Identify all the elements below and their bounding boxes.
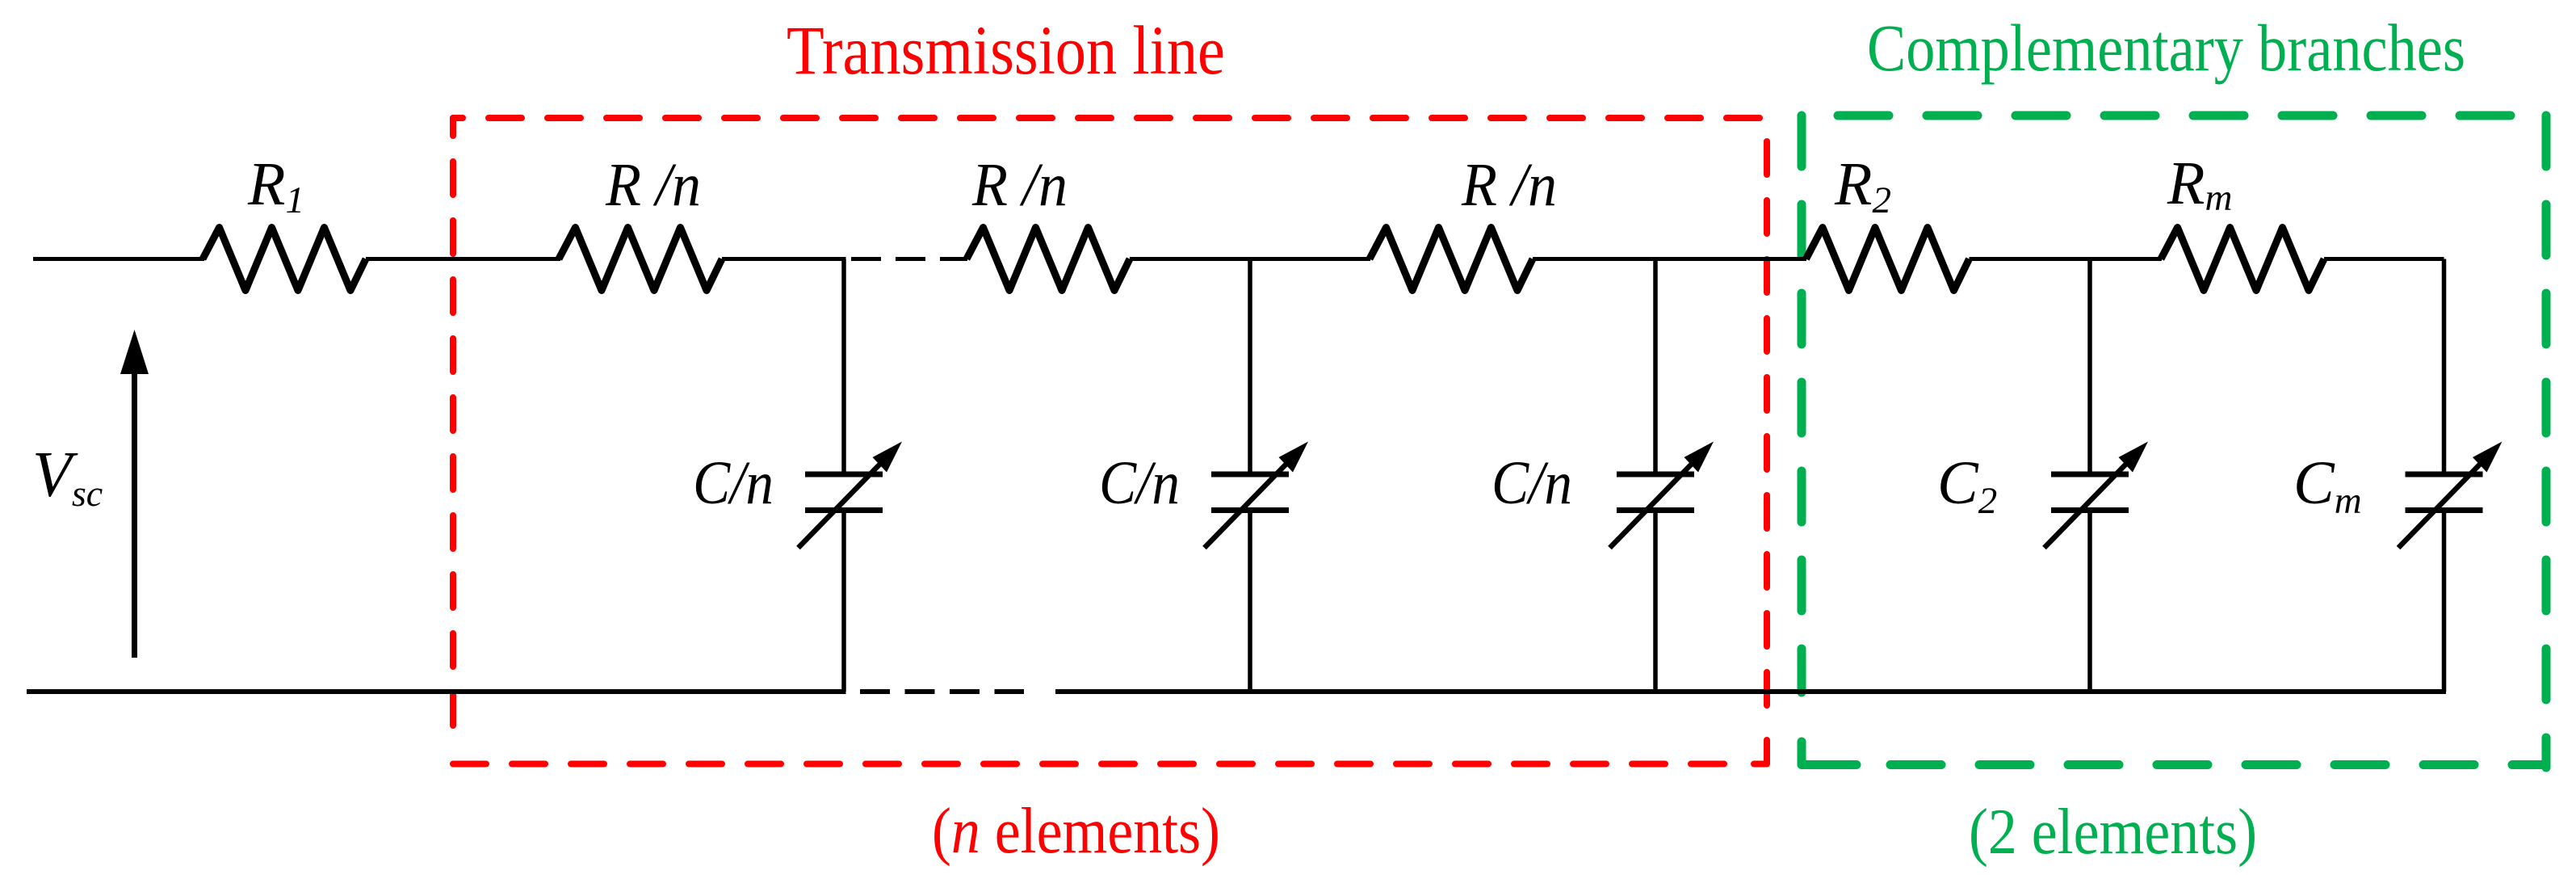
svg-text:R /n: R /n <box>1461 151 1557 219</box>
wire: top left lead <box>33 257 204 261</box>
svg-text:C/n: C/n <box>693 449 774 517</box>
wire: R/n 2 to R/n 3 (node 2) <box>1130 257 1370 261</box>
svg-text:R /n: R /n <box>605 151 701 219</box>
dashed box: Transmission line (red) <box>453 118 1767 764</box>
wire: Rm to top-right corner <box>2324 257 2444 261</box>
capacitor Cm <box>2398 259 2503 692</box>
svg-text:C/n: C/n <box>1099 449 1180 517</box>
wire: dashed continuation (bottom) <box>860 689 1024 694</box>
resistor R2 <box>1806 228 1970 291</box>
svg-text:(n elements): (n elements) <box>932 794 1220 867</box>
resistor R/n (1st) <box>559 228 722 291</box>
wire: bottom rail (left solid part) <box>27 689 846 694</box>
dashed box: Complementary branches (green) <box>1802 116 2546 768</box>
wire: bottom rail (right solid part) <box>1055 689 2446 694</box>
svg-text:Transmission line: Transmission line <box>787 11 1225 89</box>
resistor Rm <box>2161 228 2324 291</box>
capacitor C/n (3rd) <box>1610 259 1714 692</box>
resistor R1 <box>203 228 366 291</box>
resistor R/n (2nd) <box>967 228 1130 291</box>
wire: R1 to R/n 1 <box>366 257 560 261</box>
svg-text:Complementary branches: Complementary branches <box>1867 11 2465 85</box>
capacitor C/n (1st) <box>799 259 903 692</box>
svg-text:C/n: C/n <box>1491 449 1572 517</box>
wire: R/n 3 to R2 (node 3) <box>1533 257 1806 261</box>
wire: dashed continuation (top) <box>851 257 925 261</box>
wire: R/n 1 to node 1 <box>722 257 846 261</box>
resistor R/n (3rd) <box>1370 228 1533 291</box>
capacitor C/n (2nd) <box>1205 259 1309 692</box>
svg-text:R /n: R /n <box>971 151 1068 219</box>
wire: R2 to Rm (node 4) <box>1970 257 2163 261</box>
capacitor C2 <box>2045 259 2149 692</box>
svg-text:(2 elements): (2 elements) <box>1969 795 2257 868</box>
wire: lead into R/n 2 <box>940 257 967 261</box>
voltage source arrow Vsc <box>120 330 149 658</box>
